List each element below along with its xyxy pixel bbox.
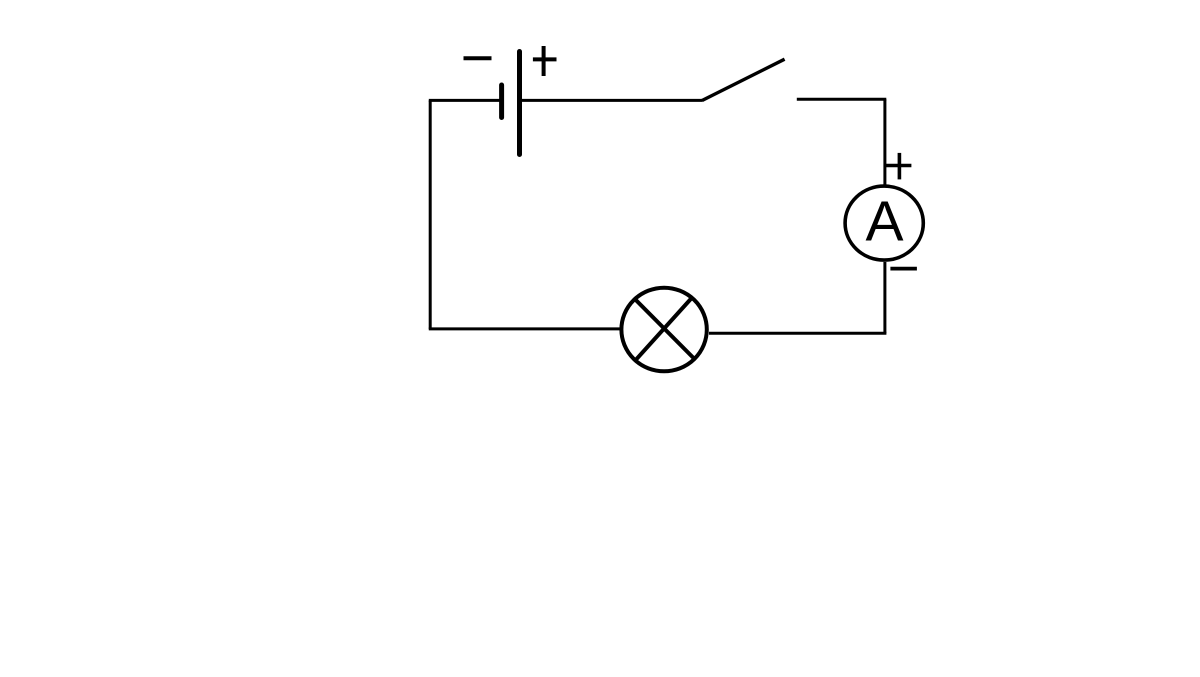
ammeter positive terminal label +	[886, 153, 912, 180]
ammeter negative terminal label -	[890, 267, 917, 271]
switch S1 (open lever)	[702, 59, 785, 100]
wire top-middle segment (battery positive plate to switch pivot)	[520, 99, 702, 102]
wire right vertical upper (top-right corner to ammeter top)	[883, 99, 886, 184]
lamp L1 circle	[621, 288, 706, 372]
ammeter A1 letter A	[865, 190, 903, 254]
battery B1 negative plate (short)	[499, 85, 504, 118]
wire left vertical (battery negative to bottom-left corner)	[429, 100, 432, 329]
lamp L1 cross X	[634, 297, 695, 362]
wire top-right segment (switch contact to top-right corner)	[797, 98, 887, 101]
wire top-left segment (left corner to battery negative plate)	[429, 99, 501, 102]
wire right vertical lower (ammeter bottom to bottom-right corner)	[883, 262, 886, 333]
ammeter A1 circle	[845, 186, 923, 260]
svg-text:A: A	[865, 190, 903, 254]
battery negative polarity label -	[464, 56, 492, 60]
wire bottom-left segment (bottom-left corner to lamp)	[429, 327, 620, 330]
battery positive polarity label +	[533, 46, 557, 76]
battery B1 positive plate (long)	[517, 52, 522, 155]
wire bottom-right segment (lamp to bottom-right corner)	[709, 332, 886, 335]
